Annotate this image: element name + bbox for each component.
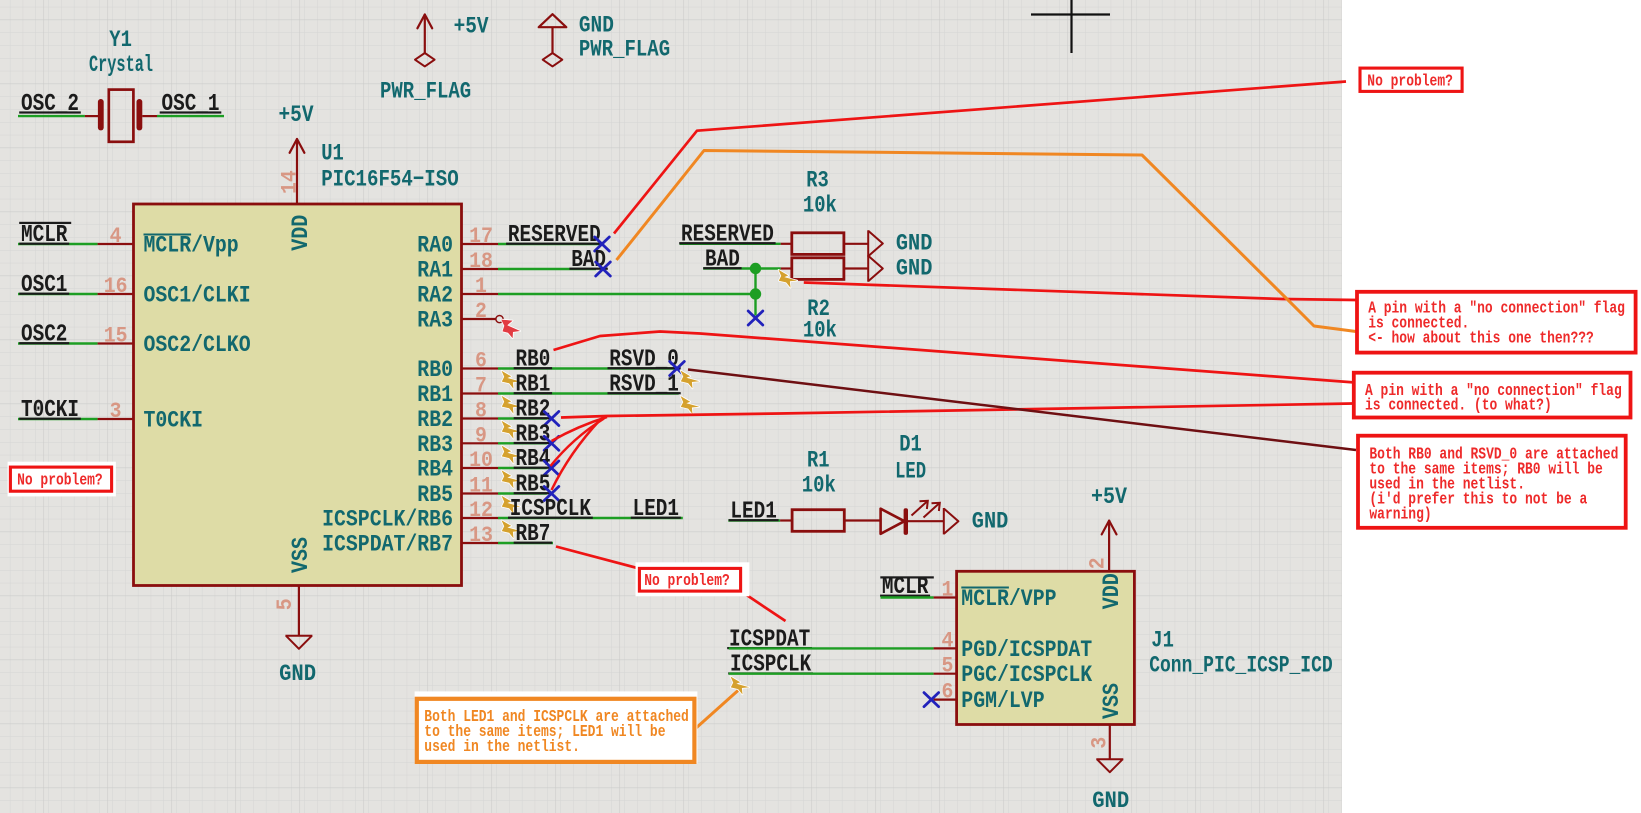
svg-text:GND: GND [579,13,614,39]
wire RB0/RSVD_0 [498,367,676,369]
svg-text:R3: R3 [806,167,829,193]
pin 16 stub [98,293,134,295]
svg-text:RB2: RB2 [417,407,453,434]
svg-text:ICSPDAT/RB7: ICSPDAT/RB7 [322,532,453,559]
wire BAD to R2 [703,267,781,269]
svg-text:12: 12 [469,498,493,523]
ERC marker RB6 [502,520,521,538]
svg-text:MCLR: MCLR [21,222,68,249]
no-connect RB2 [544,412,559,426]
U1 pin 5 stub [298,586,300,636]
svg-text:15: 15 [104,324,128,349]
wire LED1 to R1 [728,519,780,521]
pin 1 stub [462,293,499,295]
ERC marker RB3 [502,446,521,464]
pin J1.3 stub [1109,725,1111,760]
svg-text:U1: U1 [321,141,344,167]
wire RB5 [498,492,547,494]
annotation box 2 [1354,373,1631,418]
svg-text:OSC_2: OSC_2 [21,91,79,118]
ground right of R3 [868,230,883,256]
pin 11 stub [462,492,499,494]
svg-text:RSVD_0: RSVD_0 [609,347,679,374]
svg-text:LED: LED [895,458,926,484]
ERC marker RB1 [502,396,521,414]
svg-text:RB2: RB2 [516,397,551,424]
svg-text:used in the netlist.: used in the netlist. [424,737,580,756]
ERC marker ICSPCLK at J1 [731,677,750,695]
svg-text:RSVD_1: RSVD_1 [609,372,679,399]
ground below J1 [1096,759,1123,772]
svg-text:is connected. (to what?): is connected. (to what?) [1365,396,1552,415]
wire D1 to GND [908,520,944,522]
svg-text:RB3: RB3 [417,432,453,459]
svg-text:PIC16F54−ISO: PIC16F54−ISO [321,167,459,193]
pin R3.2 [844,243,868,245]
ground right of D1 [944,508,959,534]
svg-text:VSS: VSS [1099,683,1126,719]
svg-text:RA0: RA0 [417,233,453,260]
svg-text:RB5: RB5 [516,472,551,499]
wire RESERVED (RA0) [498,243,601,245]
svg-text:RESERVED: RESERVED [508,222,601,249]
svg-text:2: 2 [475,299,487,324]
svg-text:OSC_1: OSC_1 [162,91,220,118]
red leader from RB2 [561,404,1353,418]
svg-text:No problem?: No problem? [644,571,730,590]
svg-text:5: 5 [273,598,298,610]
svg-text:10k: 10k [803,193,837,219]
wire RB2 [498,417,547,419]
ERC marker R2 pin [779,270,798,288]
svg-text:ICSPCLK: ICSPCLK [510,496,592,523]
svg-text:17: 17 [469,224,493,249]
crosshair cursor [1031,13,1110,15]
wire BAD (RA1) [498,268,596,270]
svg-text:RB5: RB5 [417,482,453,509]
svg-text:VSS: VSS [288,537,315,573]
power flag +5V symbol [417,15,432,29]
mouse cursor arrow at RA3 [501,320,520,339]
wire RA2 [498,293,756,295]
no-connect RSVD_0 [670,362,685,376]
pin 8 stub [462,417,499,419]
maroon leader RSVD_0 to box3 [688,370,1356,451]
wire OSC2 [18,342,98,344]
svg-text:11: 11 [469,474,493,499]
svg-text:18: 18 [469,249,493,274]
svg-text:1: 1 [942,578,954,603]
pin 9 stub [462,442,499,444]
red leader from R2 pin marker [804,283,1356,301]
pin R2.2 [844,267,868,269]
no-connect RB4 [544,461,559,475]
svg-text:OSC1/CLKI: OSC1/CLKI [144,283,251,310]
red leader mid No problem box to ICSPDAT [741,591,786,621]
svg-text:9: 9 [475,423,487,448]
svg-text:14: 14 [278,170,303,194]
wire RB1/RSVD_1 [498,392,679,394]
wire RESERVED to R3 [680,243,781,245]
red leader to top No problem box [614,82,1346,234]
resistor R1 [792,510,844,532]
svg-text:6: 6 [942,680,954,705]
svg-text:D1: D1 [899,431,922,457]
orange leader BAD to box1 [617,151,1357,332]
wire RB3 [498,442,547,444]
svg-text:GND: GND [896,231,933,257]
svg-text:PGD/ICSPDAT: PGD/ICSPDAT [961,637,1092,664]
crystal Y1 symbol [98,99,104,130]
svg-text:No problem?: No problem? [1367,71,1453,90]
red fan lines RB3 RB4 RB5 [551,417,608,490]
svg-text:warning): warning) [1369,505,1431,524]
svg-text:16: 16 [104,274,128,299]
pin 12 stub [462,517,499,519]
svg-text:<- how about this one then???: <- how about this one then??? [1368,329,1594,348]
no-connect RB5 [544,487,559,501]
red leader from RB0 [554,332,1356,383]
svg-text:RB0: RB0 [516,347,551,374]
+5V symbol above J1 pin 2 [1102,521,1117,535]
pin 6 stub [462,367,499,369]
orange leader from orange box [696,691,739,729]
svg-text:BAD: BAD [705,247,740,274]
svg-text:+5V: +5V [279,102,314,128]
open pin circle RA3 [496,316,503,323]
pin 15 stub [98,342,134,344]
pin 17 stub [462,243,499,245]
svg-text:RB0: RB0 [417,357,453,384]
ground below U1 [285,636,312,649]
svg-text:RA1: RA1 [417,258,453,285]
no-connect RA1 [596,262,611,276]
no-connect RB3 [544,436,559,450]
svg-text:10k: 10k [803,318,837,344]
svg-text:3: 3 [1087,737,1112,749]
svg-text:GND: GND [896,256,933,282]
annotation box 3 [1358,436,1626,528]
junction BAD/RA2 upper [750,263,761,274]
LED emission arrows [912,501,940,518]
IC U1 PIC16F54 body [134,204,462,586]
svg-text:RB7: RB7 [516,521,551,548]
svg-text:T0CKI: T0CKI [144,408,204,435]
svg-text:10k: 10k [802,473,836,499]
pin Y1.2 [142,115,157,117]
annotation box No problem left [8,462,116,497]
diode D1 LED [881,509,905,534]
svg-text:RB4: RB4 [516,446,551,473]
annotation box No problem top right [1360,68,1462,91]
svg-text:Crystal: Crystal [89,52,153,78]
pin 13 stub [462,542,499,544]
ERC marker RSVD_0 [681,371,700,389]
pin Y1.1 [85,115,99,117]
svg-text:J1: J1 [1151,627,1174,653]
svg-text:GND: GND [279,661,316,687]
ground right of R2 [868,255,883,281]
svg-text:+5V: +5V [454,14,489,40]
red leader RB7 to mid No problem box [556,547,639,569]
svg-text:RA2: RA2 [417,283,453,310]
annotation box No problem middle [636,562,750,596]
pin J1.1 stub [934,596,957,598]
svg-text:5: 5 [942,654,954,679]
svg-text:No problem?: No problem? [17,470,103,489]
svg-text:MCLR/Vpp: MCLR/Vpp [144,233,239,260]
wire RB4 [498,467,547,469]
svg-text:GND: GND [972,509,1009,535]
annotation box 1 [1357,292,1636,353]
svg-text:OSC2: OSC2 [21,322,67,349]
pin J1.4 stub [934,647,957,649]
svg-text:RB1: RB1 [417,382,453,409]
resistor R3 [792,233,844,255]
svg-text:7: 7 [475,374,487,399]
svg-text:VDD: VDD [1099,573,1126,609]
svg-text:2: 2 [1086,557,1111,569]
svg-text:4: 4 [942,628,954,653]
wire ICSPDAT [729,647,934,649]
wire OSC_1 [157,115,224,117]
svg-text:1: 1 [475,274,487,299]
wire T0CKI [18,418,98,420]
svg-text:10: 10 [469,448,493,473]
ERC marker RB0 [502,371,521,389]
pin R1.2 [844,519,880,521]
junction RA2 [750,288,761,299]
pin 18 stub [462,268,499,270]
pin J1.6 stub [934,698,957,700]
svg-text:RB3: RB3 [516,421,551,448]
pin 2 stub [462,318,496,320]
pin R3.1 [781,243,792,245]
wire ICSPCLK/LED1 [498,517,683,519]
wire RB7 [498,542,553,544]
svg-text:ICSPCLK/RB6: ICSPCLK/RB6 [322,507,453,534]
svg-text:LED1: LED1 [730,499,776,526]
svg-text:VDD: VDD [288,215,315,251]
ERC marker RB4 [502,470,521,488]
svg-text:R1: R1 [807,448,830,474]
svg-text:OSC1: OSC1 [21,272,67,299]
svg-text:Y1: Y1 [109,27,132,53]
svg-text:PWR_FLAG: PWR_FLAG [380,79,471,105]
no-connect PGM/LVP [924,693,939,707]
ERC marker RB5 [502,496,521,514]
no-connect RA0 [595,237,610,251]
wire OSC1 [18,293,98,295]
wire vertical tie [754,269,756,316]
svg-text:MCLR/VPP: MCLR/VPP [961,586,1056,613]
svg-text:RB4: RB4 [417,457,453,484]
svg-text:RA3: RA3 [417,308,453,335]
svg-text:OSC2/CLKO: OSC2/CLKO [144,332,251,359]
svg-text:Conn_PIC_ICSP_ICD: Conn_PIC_ICSP_ICD [1149,653,1333,679]
pin 10 stub [462,467,499,469]
power flag GND symbol [539,14,567,27]
annotation box orange [415,691,698,763]
ERC marker RSVD_1 [681,396,700,414]
svg-text:RB1: RB1 [516,372,551,399]
svg-text:PGC/ICSPCLK: PGC/ICSPCLK [961,662,1093,689]
svg-text:+5V: +5V [1091,484,1127,510]
pin J1.5 stub [934,673,957,675]
wire MCLR [881,596,934,598]
no-connect below RA2 [748,311,763,325]
svg-text:RESERVED: RESERVED [681,222,774,249]
+5V symbol above U1 pin 14 [290,139,305,153]
wire OSC_2 [18,115,85,117]
svg-text:4: 4 [110,224,122,249]
svg-text:GND: GND [1092,788,1129,813]
svg-text:T0CKI: T0CKI [21,397,79,424]
resistor R2 [792,258,844,280]
pin 3 stub [98,418,134,420]
svg-text:8: 8 [475,399,487,424]
pin R2.1 [781,267,792,269]
svg-text:6: 6 [475,349,487,374]
svg-text:3: 3 [110,399,122,424]
svg-text:PWR_FLAG: PWR_FLAG [579,37,670,63]
svg-text:13: 13 [469,523,493,548]
pin R1.1 [780,519,792,521]
svg-text:PGM/LVP: PGM/LVP [961,688,1044,715]
connector J1 body [957,571,1135,724]
pin 7 stub [462,392,499,394]
pin 4 stub [98,243,134,245]
wire ICSPCLK [729,673,934,675]
svg-text:LED1: LED1 [633,496,679,523]
ERC marker RB2 [502,421,521,439]
wire MCLR [18,243,98,245]
